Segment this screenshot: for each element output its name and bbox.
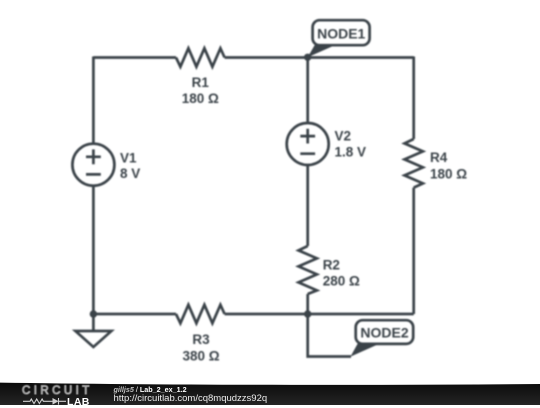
svg-text:380 Ω: 380 Ω xyxy=(182,348,219,363)
ground xyxy=(75,314,111,347)
node callout NODE1 xyxy=(308,20,370,57)
svg-text:180 Ω: 180 Ω xyxy=(430,166,467,181)
svg-text:NODE1: NODE1 xyxy=(317,25,365,41)
node dot NODE1 xyxy=(304,54,311,61)
logo LAB text xyxy=(67,397,90,408)
svg-text:V1: V1 xyxy=(120,151,137,166)
wire top-right segment xyxy=(225,56,414,59)
CircuitLab logo wordmark xyxy=(22,386,93,398)
wire top-left segment xyxy=(93,56,176,59)
CircuitLab logo resistor+diode glyph xyxy=(23,397,68,406)
node dot bottom-left xyxy=(90,310,97,317)
footer bar xyxy=(0,380,540,405)
svg-text:1.8 V: 1.8 V xyxy=(335,145,367,160)
svg-text:R3: R3 xyxy=(192,332,210,347)
svg-text:R2: R2 xyxy=(323,257,340,272)
label R2 value xyxy=(323,257,360,288)
wire middle vertical mid xyxy=(306,165,309,247)
svg-text:R4: R4 xyxy=(430,150,448,165)
wire middle vertical lower xyxy=(306,294,309,314)
resistor R3 xyxy=(176,305,225,323)
resistor R1 xyxy=(176,48,225,66)
svg-text:NODE2: NODE2 xyxy=(360,325,408,341)
credit line 2 xyxy=(114,394,268,404)
label V2 value xyxy=(335,129,367,160)
label R4 value xyxy=(430,150,467,182)
wire right vertical upper xyxy=(412,57,415,140)
svg-text:180 Ω: 180 Ω xyxy=(182,91,219,106)
label NODE2 xyxy=(360,325,408,341)
svg-text:V2: V2 xyxy=(335,129,352,144)
label NODE1 xyxy=(317,25,365,41)
resistor R4 xyxy=(405,139,423,188)
credit line 1 xyxy=(114,386,187,393)
svg-text:R1: R1 xyxy=(192,75,210,90)
wire right vertical lower xyxy=(412,188,415,314)
node dot NODE2 xyxy=(304,310,311,317)
svg-text:8 V: 8 V xyxy=(120,166,140,181)
label R1 value xyxy=(182,75,219,106)
resistor R2 xyxy=(299,246,317,294)
wire left vertical lower xyxy=(92,186,95,314)
wire middle vertical upper xyxy=(306,58,309,124)
svg-text:280 Ω: 280 Ω xyxy=(323,274,360,289)
wire to NODE2 xyxy=(308,314,351,357)
voltage source V2 xyxy=(287,123,329,165)
node callout NODE2 xyxy=(351,320,414,356)
voltage source V1 xyxy=(72,144,114,186)
wire bottom-right segment xyxy=(225,313,414,316)
wire left vertical upper xyxy=(92,57,95,145)
label V1 value xyxy=(120,151,140,182)
label R3 value xyxy=(182,332,219,363)
wire bottom-left segment xyxy=(93,313,176,316)
